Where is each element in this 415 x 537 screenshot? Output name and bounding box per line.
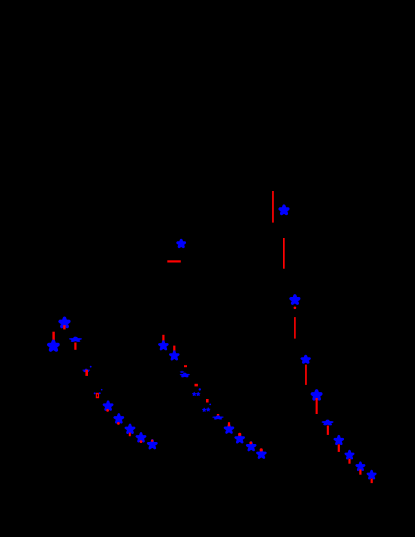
bond red bar B5 xyxy=(316,398,318,414)
N atom flat star A28 xyxy=(214,416,222,419)
O atom red rect B16 xyxy=(96,393,99,398)
O atom dot D6 xyxy=(106,409,109,412)
N atom star A32 xyxy=(257,450,265,458)
N atom bowtie star A23 xyxy=(181,373,188,376)
O atom dot D8 xyxy=(140,440,143,443)
bond red bar B15 xyxy=(85,370,88,376)
N atom tiny star A24 xyxy=(193,392,196,395)
N atom star A12 xyxy=(49,341,58,350)
O atom red hbar B21 xyxy=(195,384,198,387)
bond red bar B9 xyxy=(359,470,361,475)
N atom dot D11 xyxy=(209,404,211,406)
N atom star A17 xyxy=(126,425,134,433)
N atom tiny star A26 xyxy=(203,408,206,411)
N atom dot D5 xyxy=(101,389,103,391)
bond red segment B3 xyxy=(294,317,296,339)
N atom star A19 xyxy=(148,440,156,448)
O atom dot D12 xyxy=(238,433,241,436)
N atom star A7 xyxy=(346,451,354,458)
N atom tiny star A27 xyxy=(207,408,210,411)
O atom red vbar B23 xyxy=(217,414,219,417)
O atom red hbar B20 xyxy=(184,365,187,367)
O atom rect hollow center xyxy=(97,394,98,396)
N atom star A6 xyxy=(335,436,343,444)
N atom star A10 xyxy=(178,240,185,247)
O atom dot D1 xyxy=(294,307,297,310)
bond red bar B8 xyxy=(348,459,350,464)
O atom dot D9 xyxy=(151,440,153,442)
bond red bar B24 xyxy=(228,422,230,426)
bond red bar B14 xyxy=(74,343,76,350)
N atom flat star A14 xyxy=(83,369,89,371)
N atom star A1 xyxy=(280,206,288,213)
N atom dot D2 xyxy=(90,366,92,368)
N atom tiny flat star A22 xyxy=(180,371,183,373)
bond red bar B13 xyxy=(52,332,54,342)
N atom star A15 xyxy=(104,402,112,410)
bond red bar B6 xyxy=(327,426,329,435)
bond C=O red segment B2 xyxy=(283,238,285,269)
bond red bar B10 xyxy=(371,479,373,484)
N atom dot D4 xyxy=(99,392,101,394)
bond red bar B7 xyxy=(338,444,340,452)
bond red bar B19 xyxy=(173,346,175,353)
O atom red bar B17 xyxy=(129,433,131,437)
N atom star A20 xyxy=(159,342,167,350)
bond red segment B4 xyxy=(305,365,307,385)
N atom star A2 xyxy=(291,296,299,303)
O atom dot D13 xyxy=(249,442,252,445)
N atom tiny star A25 xyxy=(197,392,200,395)
N atom star A16 xyxy=(115,415,123,423)
N atom star A30 xyxy=(236,435,244,443)
N atom star A21 xyxy=(170,352,178,360)
N atom star A18 xyxy=(137,433,145,441)
N atom star A29 xyxy=(225,425,233,433)
N atom star A4 xyxy=(312,391,320,399)
N atom dot D10 xyxy=(199,388,201,390)
N atom star A31 xyxy=(247,442,255,450)
N atom star A9 xyxy=(368,471,376,478)
bond red bar B18 xyxy=(162,335,164,342)
N atom flat star A5 xyxy=(323,421,331,425)
O atom dot D14 xyxy=(260,448,263,451)
N atom star A11 xyxy=(60,318,69,326)
bond red bar B12 xyxy=(63,325,65,329)
bond C=O red segment B1 xyxy=(272,191,274,223)
O atom dot D7 xyxy=(117,422,120,425)
O double bond horizontal bar B11 xyxy=(167,260,181,262)
N atom dot D3 xyxy=(94,392,96,394)
N atom star A8 xyxy=(357,463,365,470)
N atom flat star A13 xyxy=(71,338,80,342)
O atom red vbar B22 xyxy=(206,399,209,403)
N atom star A3 xyxy=(302,356,309,362)
